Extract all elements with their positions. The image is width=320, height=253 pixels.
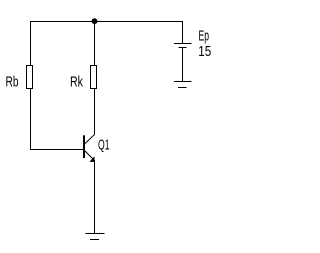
svg-text:Rk: Rk <box>70 75 84 91</box>
svg-text:Rb: Rb <box>6 75 19 91</box>
svg-text:Ep: Ep <box>199 29 210 45</box>
svg-text:Q1: Q1 <box>98 137 110 153</box>
svg-text:15: 15 <box>198 44 211 60</box>
